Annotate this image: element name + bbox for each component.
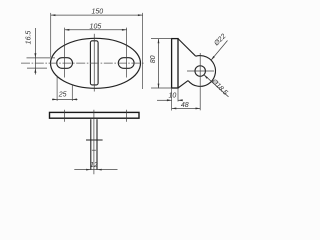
right hole centerline [126, 28, 128, 78]
dim 12 [74, 169, 117, 171]
inner hole circle [195, 66, 206, 77]
center slot [90, 41, 98, 85]
top view: oval plate outline [51, 38, 141, 88]
dim 25 [56, 76, 58, 101]
dim 16.5 [34, 28, 36, 75]
side view: plate edge rect [172, 39, 178, 88]
slot centerline [93, 34, 95, 92]
dim 150 [51, 14, 143, 16]
svg-text:150: 150 [91, 9, 103, 16]
lower tangent line [178, 81, 188, 88]
dim 48 [172, 107, 201, 109]
crosshair v / 48 ext [199, 53, 201, 110]
left slot hole [57, 58, 73, 69]
dim 105 [65, 29, 127, 31]
stem [90, 119, 92, 169]
front view: plate [50, 112, 140, 118]
stem centerline [93, 110, 95, 175]
crosshair h [187, 70, 214, 72]
boss outer arc [188, 56, 215, 87]
right slot hole [118, 58, 134, 69]
tick right hole [125, 110, 127, 122]
svg-text:25: 25 [58, 91, 67, 98]
dim 10 [171, 88, 173, 111]
svg-text:16.5: 16.5 [26, 31, 33, 45]
horizontal centerline [21, 62, 144, 64]
leader D22 [211, 41, 227, 61]
svg-text:80: 80 [150, 55, 157, 63]
leader D18.5 [204, 75, 229, 97]
left hole centerline [64, 28, 66, 78]
upper tangent line [178, 39, 196, 57]
svg-text:105: 105 [90, 23, 102, 30]
tick left hole [64, 110, 66, 122]
stem step line [86, 139, 103, 141]
dim 80 [158, 39, 160, 89]
svg-text:48: 48 [181, 102, 189, 109]
svg-text:12: 12 [90, 162, 98, 169]
svg-text:10: 10 [169, 92, 177, 99]
